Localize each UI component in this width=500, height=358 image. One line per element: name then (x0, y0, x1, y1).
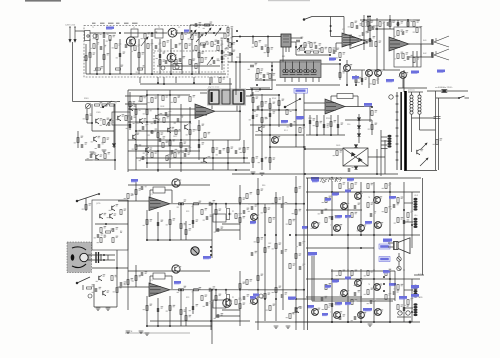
capacitor C11 (165, 112, 167, 116)
part label blue chB (174, 281, 181, 284)
svg-text:C209 C210: C209 C210 (65, 25, 76, 27)
junction (358, 119, 360, 121)
wire J601 pin2 (381, 140, 388, 142)
capacitor C7 (221, 56, 223, 60)
capacitor C27 (229, 52, 231, 56)
wire motor 2 (88, 259, 115, 261)
op-amp preamp B (149, 283, 170, 297)
transistor Q404 (156, 114, 159, 119)
transistor Q203 (167, 53, 176, 62)
junction (243, 157, 245, 159)
tuner top text row (92, 23, 138, 24)
wire opamp U401 out (215, 110, 240, 112)
resistor R131 (275, 244, 277, 249)
wire sec tap right (412, 117, 436, 119)
junction (146, 239, 148, 241)
wire amp A v374 (373, 182, 375, 235)
junction (295, 134, 297, 136)
switch S mains (458, 96, 464, 99)
wire stub (193, 77, 195, 83)
capacitor C33 (157, 308, 159, 312)
wire Q411 to transformer (402, 79, 404, 88)
wire head right (246, 95, 252, 97)
wire spk1 (388, 242, 394, 244)
transistor amp A Q6 (358, 225, 365, 232)
resistor R33 (252, 98, 254, 103)
junction (225, 289, 227, 291)
wire Q501 up (346, 60, 348, 64)
transistor Q408 (272, 137, 279, 144)
resistor I x4 (413, 22, 415, 27)
capacitor C37 (331, 216, 333, 220)
transistor amp A Q3 (341, 203, 348, 210)
resistor Q50x (355, 78, 357, 83)
wire I vert 4 (416, 51, 418, 67)
variable cap VC1 (205, 28, 211, 36)
resistor R24 (157, 133, 159, 138)
resistor R122 (243, 148, 245, 153)
wire spk2 (388, 246, 394, 248)
junction (303, 289, 305, 291)
resistor IF7 (329, 48, 331, 53)
resistor R5 (191, 35, 193, 40)
capacitor C18 (252, 115, 254, 119)
wire mains vert 1 (435, 91, 437, 170)
junction (191, 73, 193, 75)
resistor R97 (264, 248, 266, 253)
wire F horiz 120 (345, 119, 372, 121)
wire preamp B input (118, 286, 149, 288)
wire F drop 1 (309, 115, 311, 135)
wire H left vert (380, 130, 382, 176)
wire bottom-left faint (125, 332, 190, 334)
svg-text:C501: C501 (255, 91, 259, 93)
junction (264, 298, 266, 300)
wire filter pin 1 (284, 78, 286, 83)
wire TR v364 (363, 15, 365, 50)
junction (146, 94, 148, 96)
wire tuner drop 10 (159, 39, 161, 74)
resistor R105 (93, 44, 95, 49)
wire D vert 199 (198, 120, 200, 160)
resistor R95 (257, 276, 259, 281)
resistor R92 (325, 305, 327, 310)
resistor R128 (299, 128, 301, 133)
part label blue tuner right (184, 30, 189, 33)
wire N bottom border seg (414, 274, 424, 276)
wire mains 3 (465, 97, 470, 99)
junction (210, 320, 212, 322)
junction (355, 84, 357, 86)
part label blue amp top2 (347, 178, 354, 181)
part label blue Q411 (411, 71, 419, 74)
capacitor LIC2 (261, 46, 263, 50)
capacitor C45 (370, 300, 372, 304)
wire preamp A input (118, 200, 149, 202)
resistor pr 0 (246, 194, 248, 199)
part label blue B out (288, 297, 296, 301)
svg-text:T7: T7 (330, 312, 332, 314)
capacitor tuner edge2 (227, 38, 229, 42)
svg-text:C9: C9 (178, 27, 180, 29)
capacitor C12 (177, 118, 179, 122)
scan streak top 2 (268, 0, 310, 1)
capacitor C10 (154, 120, 156, 124)
wire B link (87, 122, 92, 124)
resistor preB x1 (135, 276, 137, 281)
capacitor C69 (257, 106, 259, 110)
junction (330, 30, 332, 32)
resistor R108 (147, 44, 149, 49)
resistor R116 (195, 64, 197, 69)
junction IF1 (263, 79, 265, 81)
junction (360, 321, 362, 323)
resistor R119 (204, 133, 206, 138)
wire fb right v (357, 96, 359, 107)
wire tuner drop 11 (170, 39, 172, 74)
junction (257, 203, 259, 205)
junction (103, 259, 105, 261)
wire sec tops (408, 91, 423, 93)
wire TE v190 (189, 25, 191, 33)
part label blue right edge (437, 70, 445, 73)
wire I vert 398 (397, 20, 399, 27)
wire I bottom (370, 69, 400, 71)
wire amp A v404 (403, 182, 405, 235)
resistor R36 (261, 118, 263, 123)
wire amp A v412 (411, 192, 413, 235)
wire mains vert 2 (438, 98, 440, 170)
diode D501 (357, 118, 360, 121)
junction (411, 224, 413, 226)
filter coil 3 (297, 62, 303, 75)
junction (339, 63, 341, 65)
resistor R94 (257, 238, 259, 243)
resistor R22 (135, 110, 137, 115)
oscillator dashed sub-box (154, 51, 224, 72)
part label blue chB small (253, 294, 259, 297)
wire tuner to IC (232, 36, 281, 38)
resistor AM1 (125, 116, 127, 121)
capacitor Q50x (361, 78, 363, 82)
wire I vert 390 (389, 15, 391, 29)
tuner dashed enclosure (84, 26, 228, 78)
transistor Q706 (99, 275, 102, 280)
antenna (69, 27, 76, 42)
wire K vert 117 (116, 250, 118, 307)
wire D horiz 122 (128, 121, 190, 123)
resistor R96 (264, 208, 266, 213)
capacitor C19 (309, 120, 311, 124)
wire D horiz 163 (147, 162, 250, 164)
transistor Q405 (168, 127, 171, 132)
wire mut2 (398, 261, 400, 266)
wire K cross (95, 223, 117, 225)
resistor R61 (146, 220, 148, 225)
svg-text:T2: T2 (158, 27, 160, 29)
capacitor preA x2 (141, 186, 143, 190)
filter coil 2 (290, 62, 296, 75)
trimmer TR1 (85, 103, 90, 108)
wire preamp A h185 (128, 184, 210, 186)
wire tuner left col (85, 44, 87, 74)
wire IC pin1 (282, 47, 284, 52)
resistor pr 86 (246, 280, 248, 285)
transistor Q406 (146, 147, 149, 152)
wire E vert 3 (269, 98, 271, 147)
diode D503 (357, 134, 360, 137)
resistor R93 (257, 190, 259, 195)
wire amp B rail1 (306, 278, 420, 280)
wire cb v262 (261, 134, 263, 170)
variable cap TE3 (190, 30, 196, 38)
wire tuner drop 8 (144, 39, 146, 74)
junction (295, 234, 297, 236)
junction (261, 109, 263, 111)
resistor R30 (174, 153, 176, 158)
transistor amp B Q1 (355, 280, 362, 287)
wire fb right (353, 95, 358, 97)
part label blue amp A f (389, 196, 396, 199)
AM box (112, 112, 130, 125)
transistor Q502 (366, 70, 373, 77)
transistor AM1 (118, 115, 121, 120)
adjust arrow A1 (297, 45, 302, 50)
svg-text:C412: C412 (173, 136, 177, 138)
junction preA (157, 239, 159, 241)
junction (367, 16, 369, 18)
junction (157, 150, 159, 152)
variable cap VC4 (141, 37, 148, 46)
capacitor IF2 (263, 74, 265, 78)
svg-text:R530: R530 (326, 118, 330, 120)
wire J v (295, 42, 297, 55)
wire D opamp input (128, 108, 195, 110)
wire filter pin 6 (318, 78, 320, 83)
resistor preA x4 (201, 210, 203, 215)
wire I horiz 20 (377, 19, 420, 21)
resistor TE7 (205, 24, 210, 26)
resistor R91 (385, 271, 387, 276)
filter coil 1 (283, 62, 289, 75)
wire I vert 2 (383, 22, 385, 70)
junction (369, 16, 371, 18)
resistor R26 (180, 143, 182, 148)
part label blue amp B d (345, 302, 351, 305)
wire D horiz 104 (125, 103, 147, 105)
wire E vert 4 (278, 95, 280, 127)
resistor R63 (180, 224, 182, 229)
junction (180, 203, 182, 205)
svg-text:P1: P1 (232, 297, 234, 299)
capacitor C54 (100, 46, 102, 50)
junction (91, 122, 93, 124)
junction (180, 139, 182, 141)
transistor Q409 (259, 126, 262, 131)
capacitor C67 (185, 148, 187, 152)
resistor R21 (174, 98, 176, 103)
part label blue top (312, 179, 319, 182)
resistor R69 (325, 198, 327, 203)
part label blue amp B b (325, 285, 331, 288)
wire preamp B potlink (225, 290, 227, 294)
capacitor TR2 (362, 32, 364, 36)
junction (303, 146, 305, 148)
wire pr h230 0 (216, 229, 240, 231)
variable cap VC5 (196, 34, 203, 42)
svg-text:TAPE: TAPE (418, 296, 423, 299)
wire sec2 tap down (419, 115, 421, 131)
junction (130, 73, 132, 75)
resistor R104 (295, 308, 297, 313)
muting circle 1 (397, 257, 401, 261)
wire below tuner bus (140, 83, 232, 85)
wire tuner right edge drop (231, 28, 233, 62)
wire K vert 94 (93, 284, 95, 307)
junction (198, 32, 200, 34)
wire v240 A2 (239, 185, 241, 240)
junction (210, 250, 212, 252)
resistor R7 (103, 55, 105, 60)
wire ampB top border (331, 270, 395, 272)
capacitor C34 (192, 306, 194, 310)
capacitor C32 (217, 228, 219, 232)
wire IC pin2 (285, 47, 287, 52)
junction (371, 106, 373, 108)
part label blue mid3 (383, 270, 390, 273)
svg-text:C408: C408 (160, 106, 164, 108)
resistor R56 (100, 228, 102, 233)
resistor R67 (180, 310, 182, 315)
wire J vert 368 (367, 16, 369, 33)
capacitor C44 (354, 292, 356, 296)
resistor TR6 (339, 53, 341, 58)
wire TR v370 (369, 18, 371, 47)
ground (126, 331, 131, 333)
junction K (116, 267, 118, 269)
transistor amp in A (251, 214, 258, 221)
switch S2 record/play (284, 98, 301, 108)
junction (411, 311, 413, 313)
resistor R610 (436, 140, 438, 145)
capacitor C36 (321, 210, 323, 214)
transistor Q411 (400, 72, 407, 79)
wire E horiz 110 (253, 109, 296, 111)
junction (403, 296, 405, 298)
resistor R68 (239, 304, 241, 309)
resistor R64 (239, 218, 241, 223)
feedback box U402 (337, 94, 353, 99)
diode D301 (112, 144, 115, 147)
ground cb2 (260, 173, 265, 175)
wire v240 B2 (239, 271, 241, 326)
tuner small circle 2 (175, 65, 179, 69)
junction (339, 59, 341, 61)
connector amp A J1 (414, 198, 418, 211)
transistor amp A Q7 (375, 222, 382, 229)
wire tuner right col (221, 40, 223, 70)
junction (389, 234, 391, 236)
junction pr 86 (215, 289, 217, 291)
junction (169, 239, 171, 241)
wire E vert 1 (252, 92, 254, 128)
wire U402 in+ (304, 102, 325, 104)
wire D vert 228 (227, 140, 229, 170)
resistor R37 (371, 111, 373, 116)
IF can T201 (85, 31, 91, 41)
resistor series2 A2 (194, 203, 199, 205)
variable cap VC2 (215, 28, 221, 36)
tiny part label texture (74, 20, 443, 321)
op-amp U404 IF amp (342, 33, 368, 49)
wire preamp B fb rv (171, 276, 173, 289)
resistor R49 (306, 51, 311, 53)
resistor R16 (86, 115, 88, 120)
wire amp B v348 (347, 269, 349, 322)
wire from amp to transformer (403, 70, 405, 92)
capacitor C13 (159, 138, 161, 142)
tape head module (207, 89, 246, 106)
wire I top (375, 28, 394, 30)
resistor R3 (144, 34, 146, 39)
junction (278, 109, 280, 111)
resistor IF6 (321, 48, 323, 53)
ground (286, 326, 291, 328)
wire D vert 1 (127, 90, 129, 172)
ground (139, 331, 144, 333)
diode D601 (354, 145, 357, 148)
capacitor series B2 (209, 288, 211, 292)
resistor R115 (175, 60, 177, 65)
part label framed blue mid (379, 244, 390, 249)
IC MIX (grey) (281, 34, 291, 47)
junction AM (114, 159, 116, 161)
wire IF h88 (250, 87, 270, 89)
wire preamp B output (170, 289, 304, 291)
capacitor C56 (155, 45, 157, 49)
resistor pr2 86 (215, 296, 217, 301)
resistor R52 (351, 23, 353, 28)
resistor R12 (201, 58, 203, 63)
wire preamp B v181 (180, 290, 182, 326)
svg-text:R80: R80 (262, 185, 265, 187)
resistor R29 (151, 153, 153, 158)
junction (360, 247, 362, 249)
part label blue amp B a (332, 280, 339, 283)
junction v240 B2 (239, 289, 241, 291)
wire I vert 408 (407, 20, 409, 27)
resistor tuner edge (219, 78, 221, 83)
wire filter pin 5 (312, 78, 314, 83)
part label blue amp A b (325, 198, 331, 201)
junction LIC2 (252, 36, 254, 38)
capacitor C22 (387, 22, 389, 26)
junction head2 (259, 89, 261, 91)
transistor amp B Q3 (341, 290, 348, 297)
wire IC out1 (291, 37, 302, 39)
resistor preB x8 (185, 316, 187, 321)
resistor R101 (295, 188, 297, 193)
wire B drop1 (86, 109, 88, 123)
wire E main bus (303, 88, 305, 176)
resistor AMx (77, 138, 79, 143)
capacitor C30 (157, 222, 159, 226)
wire tuner drop 6 (130, 39, 132, 74)
resistor R109 (163, 42, 165, 47)
capacitor series A2 (209, 202, 211, 206)
part label blue lB (250, 296, 256, 299)
capacitor C63 (235, 150, 237, 154)
